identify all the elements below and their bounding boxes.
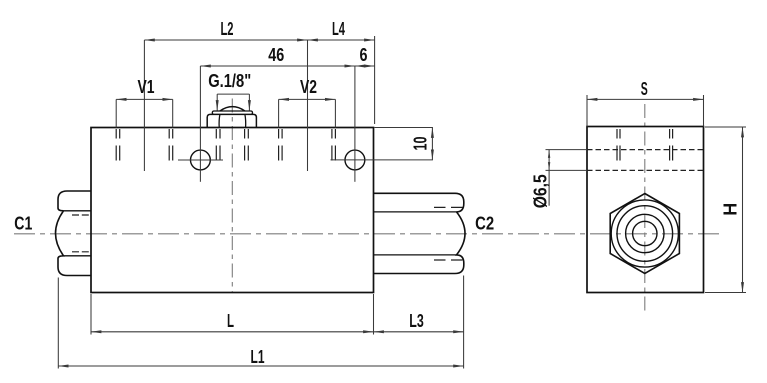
node: V2 port centerline (307, 40, 309, 171)
node: right hole vertical centerline / 46 extension (354, 66, 356, 182)
hole: right mounting hole circle (345, 150, 365, 170)
fitting C1: hex facet lines (64, 210, 92, 212)
nut: G.1/8 cap nut on top of body (207, 114, 256, 127)
svg-text:H: H (721, 203, 741, 216)
port V1: hidden bore dashed lines (116, 129, 335, 161)
hole: left mounting hole circle (191, 150, 211, 170)
node: left hole vertical centerline / 46 extension (199, 66, 201, 182)
wire: top edge extension for dim 10 (375, 127, 433, 129)
dimension S (587, 98, 704, 100)
svg-text:6: 6 (360, 45, 368, 65)
dimension L2 (144, 39, 307, 41)
fitting C1: hidden thread dashes (72, 214, 91, 216)
port: end view hidden port bore dashes (617, 129, 673, 161)
port G1/8: hidden bore dashed lines (215, 129, 217, 161)
fitting C1: left hex end fitting outline (56, 191, 92, 276)
node: left hole horizontal centerline (178, 159, 223, 161)
body: end view rectangle (587, 127, 704, 293)
svg-text:Ø6,5: Ø6,5 (531, 174, 551, 208)
hole: end view Ø6,5 hidden lines (587, 149, 704, 151)
wire: right extension for L4 and 6 dims (374, 36, 376, 124)
svg-text:10: 10 (411, 137, 431, 151)
nut: end view hexagon (610, 194, 679, 274)
fitting C2: hex facet lines (374, 211, 457, 213)
wire: vertical centerline of end view (644, 104, 646, 313)
wire: extension lines for bottom dims (57, 278, 59, 369)
svg-text:46: 46 (268, 45, 284, 65)
svg-text:S: S (641, 79, 648, 99)
dimension V1 bracket (116, 98, 173, 100)
svg-text:L4: L4 (332, 19, 346, 39)
node: V1 port centerline (143, 40, 145, 171)
svg-text:C2: C2 (475, 213, 494, 233)
svg-text:L1: L1 (251, 347, 265, 367)
dimension 6 (355, 65, 375, 67)
fitting C2: hidden thread dashes (434, 206, 463, 208)
dimension G.1/8 bracket (217, 93, 249, 95)
dimension V2 bracket (279, 98, 336, 100)
dimension L3 (374, 331, 464, 333)
dimension L4 (308, 39, 375, 41)
fitting C2: right hex end fitting outline (374, 193, 466, 273)
dimension L (91, 331, 374, 333)
svg-text:L3: L3 (409, 311, 424, 331)
body: main valve body rectangle (front view) (91, 128, 374, 293)
wire: vertical centerline of G.1/8 port (231, 99, 233, 292)
svg-text:L2: L2 (221, 19, 234, 39)
dimension L1 (58, 365, 463, 367)
dimension 46 (200, 65, 355, 67)
dimension 10 (431, 128, 433, 160)
svg-text:C1: C1 (14, 214, 32, 234)
dimension H (742, 127, 744, 293)
port V2: hidden bore dashed lines (278, 129, 280, 161)
svg-text:G.1/8": G.1/8" (208, 71, 251, 91)
node: right hole horizontal centerline extended for dim 10 (331, 159, 433, 161)
wire: main horizontal centerline C1-C2 axis (14, 233, 723, 235)
svg-text:V1: V1 (138, 77, 155, 97)
svg-text:L: L (227, 311, 234, 331)
svg-text:V2: V2 (300, 77, 317, 97)
dimension Ø6,5 (546, 149, 588, 151)
nut: end view concentric circles (611, 200, 678, 267)
